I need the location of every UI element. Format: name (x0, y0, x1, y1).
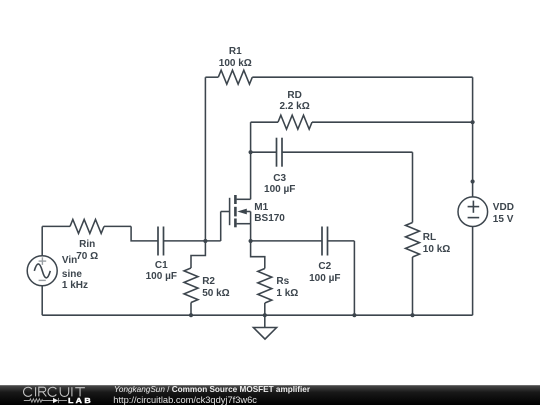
wire source vertical (250, 212, 252, 242)
node dot VDD top (471, 179, 475, 183)
wire input row left (42, 225, 70, 227)
wire C3 row right (282, 151, 413, 153)
node dot gate node (203, 239, 207, 243)
ground (253, 328, 276, 340)
label C1 (155, 261, 168, 271)
wire RD row left lead (251, 121, 278, 123)
wire gate vertical (220, 212, 222, 242)
wire drain lead (237, 198, 251, 200)
wire RD row right (312, 121, 473, 123)
label Rs (276, 277, 289, 287)
wire Vin bottom lead (41, 286, 43, 315)
label Vin (62, 256, 77, 266)
footer credit line 2 (113, 396, 257, 405)
wire Rs bottom to ground (264, 303, 266, 328)
voltage source Vin sine (34, 264, 50, 278)
capacitor C1 (158, 227, 164, 256)
wire input step down (131, 226, 158, 241)
node dot C2 bottom (352, 313, 356, 317)
wire R1 left vertical (204, 77, 206, 241)
node dot C3 tap (249, 150, 253, 154)
wire Rs step (251, 241, 265, 269)
transistor M1 arrow head (237, 209, 247, 215)
node dot RL bottom (410, 313, 414, 317)
wire RL top vertical (412, 152, 414, 222)
wire gate lead (221, 211, 230, 213)
node dot R2 bottom (189, 313, 193, 317)
resistor Rin (70, 219, 104, 233)
wire R1 row right (252, 76, 472, 78)
VDD plus sign (468, 201, 480, 213)
wire bottom rail (42, 314, 472, 316)
wire R1 row left lead (205, 76, 218, 78)
Vin minus sign (gray) (39, 279, 46, 281)
transistor M1 source lead (237, 223, 251, 225)
wire input row right (104, 225, 131, 227)
label RD (287, 91, 301, 101)
wire Vin top lead (41, 226, 43, 255)
label RL (423, 233, 436, 243)
transistor M1 body arrow line (243, 211, 251, 213)
node dot ground node (263, 313, 267, 317)
footer bar (0, 385, 540, 405)
wire source node to C2 (251, 240, 322, 242)
label C3 (273, 174, 286, 184)
transistor M1 gate bar (229, 198, 231, 225)
label R1 (229, 47, 242, 57)
capacitor C2 (322, 227, 328, 256)
transistor M1 channel segments (234, 195, 237, 227)
resistor R2 (184, 268, 198, 303)
resistor Rs (258, 269, 272, 304)
footer logo LAB (68, 397, 93, 404)
resistor R1 (218, 70, 252, 84)
Vin plus sign (gray) (39, 257, 47, 265)
node dot RD right (471, 120, 475, 124)
label Rin (79, 240, 95, 250)
node dot source node (249, 239, 253, 243)
wire R2 step (191, 241, 205, 268)
wire R2 bottom (190, 303, 192, 316)
wire C3 row left (251, 151, 277, 153)
wire RL bottom vertical (412, 257, 414, 315)
voltage source VDD circle (458, 197, 488, 227)
voltage source Vin circle (27, 256, 57, 286)
label C2 (318, 262, 331, 272)
footer credit line 1 (114, 386, 310, 394)
footer logo resistor-diode glyph (24, 398, 67, 403)
label R2 (202, 277, 215, 287)
resistor RL (406, 223, 420, 258)
label VDD (493, 203, 514, 213)
footer logo CIRCUIT letters (24, 387, 85, 396)
VDD minus sign (468, 217, 480, 219)
wire C2 right (328, 240, 355, 242)
capacitor C3 (277, 138, 283, 167)
wire C2 down (353, 241, 355, 315)
wire drain vertical (250, 122, 252, 199)
wire right vertical to VDD (472, 77, 474, 197)
resistor RD (278, 115, 312, 129)
wire C1 to gate node (164, 240, 221, 242)
label M1 (254, 203, 268, 213)
wire VDD bottom lead (472, 226, 474, 315)
